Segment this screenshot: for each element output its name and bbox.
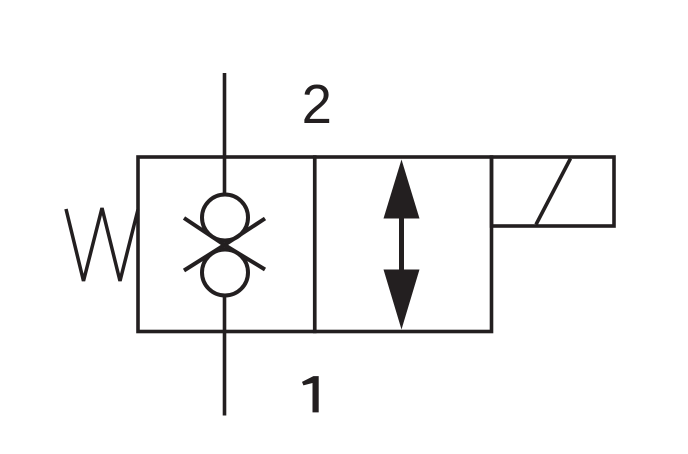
seat line upper left <box>184 218 225 245</box>
solenoid U1 diagonal <box>536 159 571 225</box>
flow arrow head up <box>384 160 420 219</box>
flow arrow head down <box>384 270 420 330</box>
svg-text:2: 2 <box>302 74 332 135</box>
wire port 1 vertical line <box>223 293 227 416</box>
seat line lower left <box>184 245 225 271</box>
valve body left position box <box>138 157 315 332</box>
poppet ball bottom circle <box>202 250 248 296</box>
seat line lower right <box>225 245 266 270</box>
flow arrow shaft <box>399 215 404 273</box>
seat line upper right <box>225 219 266 246</box>
port label 1 <box>302 376 319 412</box>
valve body right position box <box>315 157 492 332</box>
solenoid U1 box <box>492 157 615 226</box>
spring <box>66 208 138 281</box>
wire port 2 vertical line <box>223 73 227 198</box>
poppet ball top circle <box>202 195 248 241</box>
